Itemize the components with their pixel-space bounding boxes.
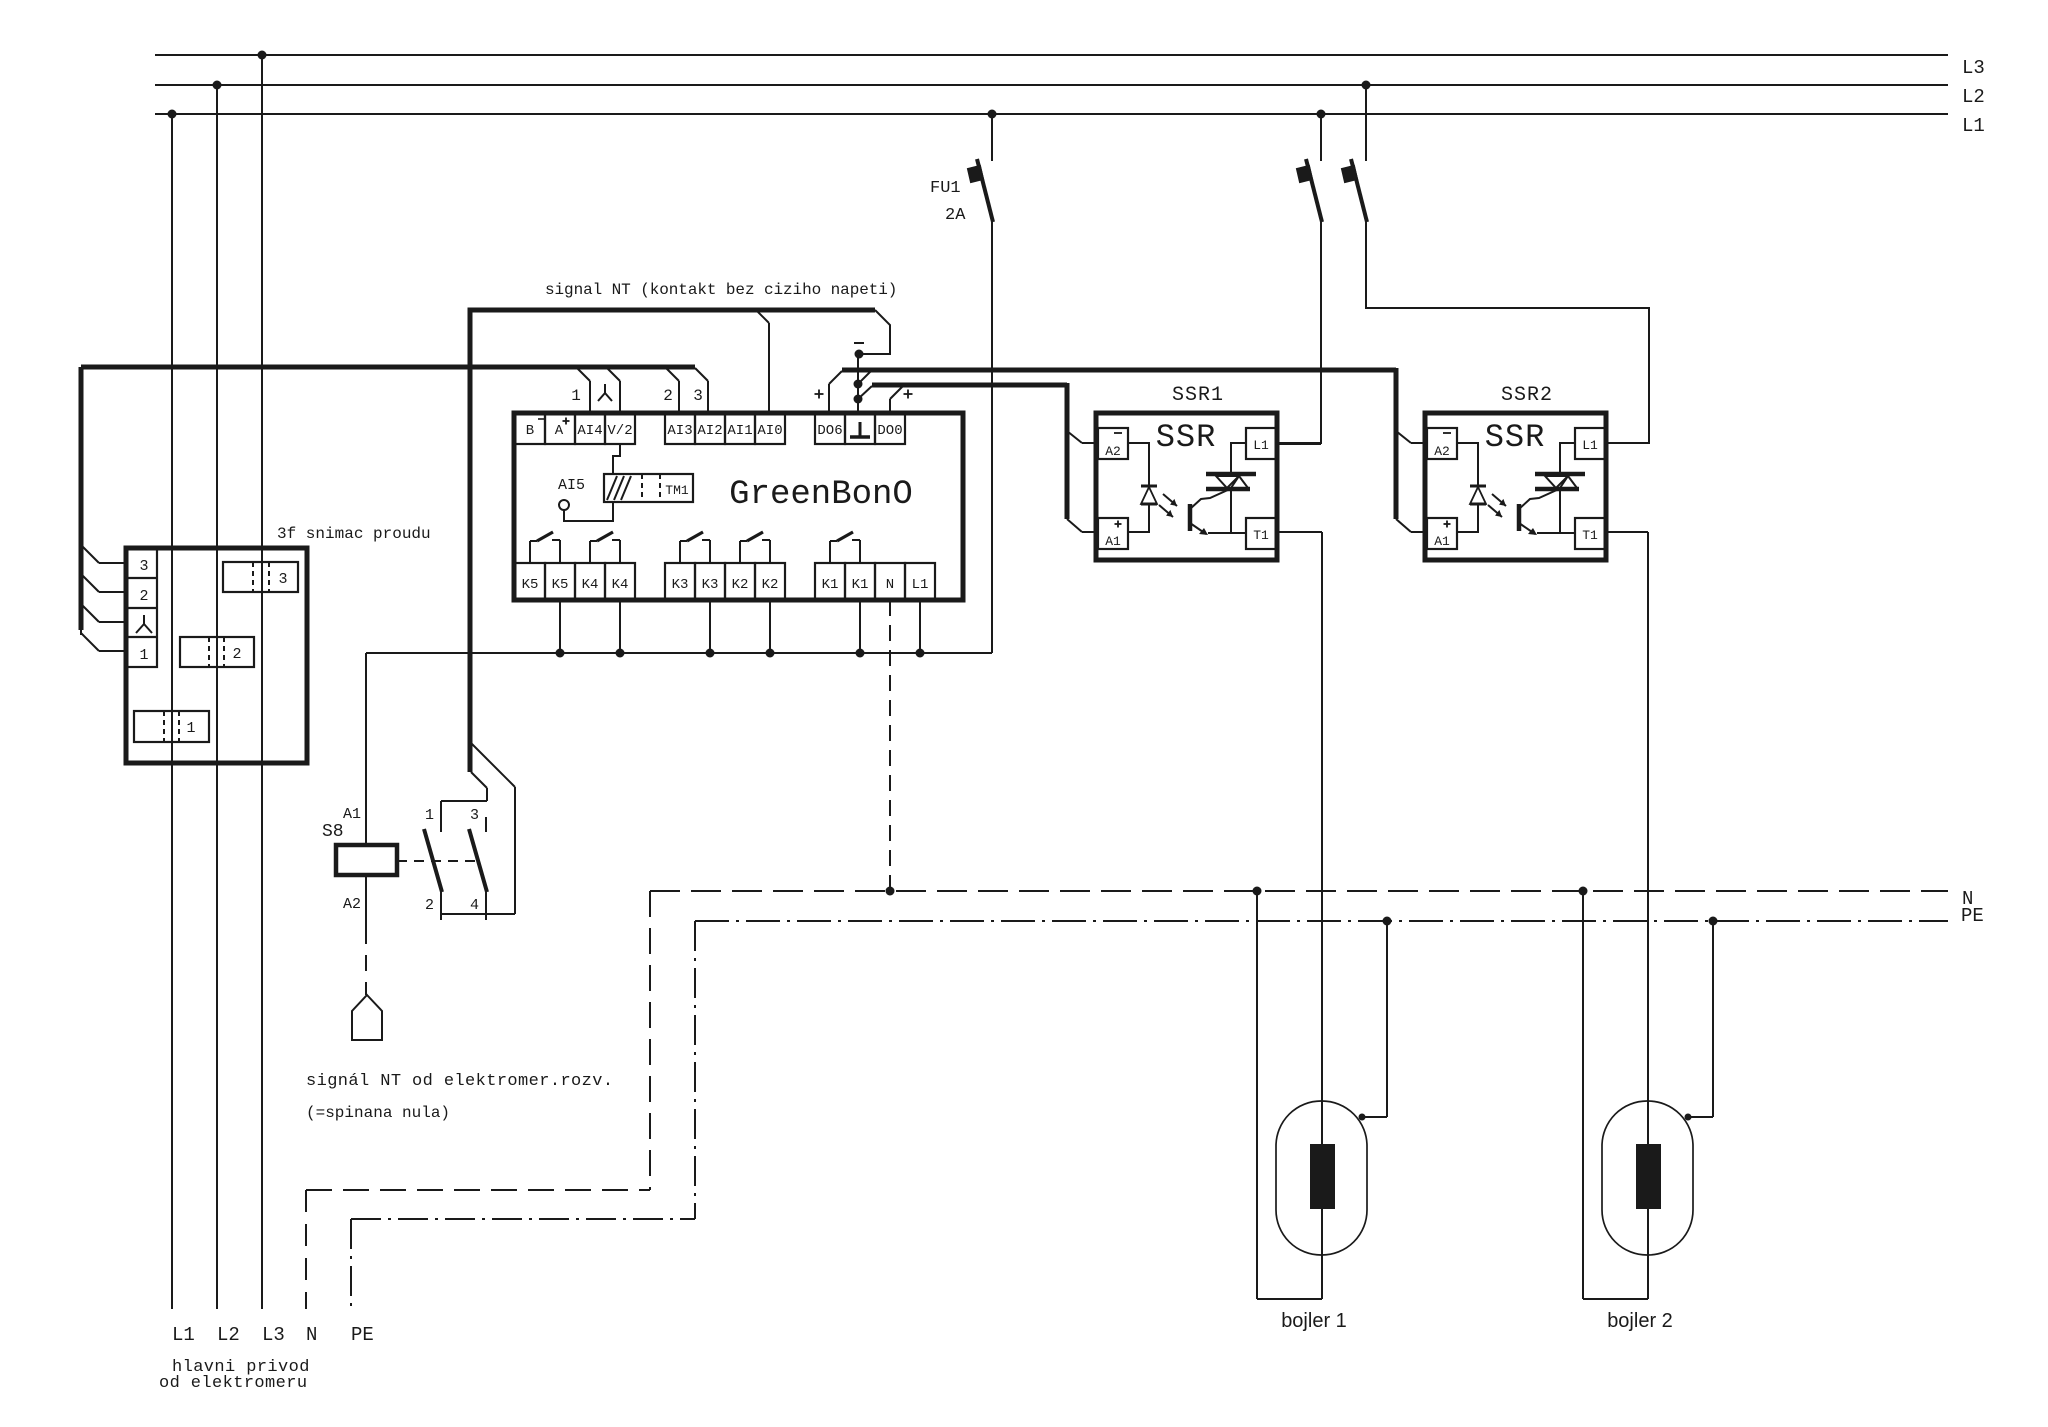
svg-text:S8: S8 <box>322 822 344 842</box>
svg-text:AI4: AI4 <box>577 423 602 439</box>
svg-text:L3: L3 <box>1962 57 1985 79</box>
svg-text:3: 3 <box>470 807 479 824</box>
svg-text:K3: K3 <box>672 577 689 593</box>
svg-text:PE: PE <box>351 1324 374 1346</box>
svg-text:(=spinana nula): (=spinana nula) <box>306 1104 450 1122</box>
svg-text:signál NT od elektromer.rozv.: signál NT od elektromer.rozv. <box>306 1072 613 1091</box>
svg-text:SSR1: SSR1 <box>1172 384 1224 407</box>
svg-text:N: N <box>306 1324 317 1346</box>
svg-text:bojler 1: bojler 1 <box>1281 1310 1347 1332</box>
svg-text:2: 2 <box>139 588 148 605</box>
svg-text:signal NT (kontakt bez ciziho: signal NT (kontakt bez ciziho napeti) <box>545 281 897 299</box>
svg-text:3: 3 <box>278 571 287 588</box>
svg-text:N: N <box>886 577 894 593</box>
svg-text:AI5: AI5 <box>558 477 585 494</box>
svg-text:od elektromeru: od elektromeru <box>159 1374 307 1393</box>
svg-text:TM1: TM1 <box>665 483 689 498</box>
svg-text:PE: PE <box>1961 905 1984 927</box>
svg-text:K2: K2 <box>732 577 749 593</box>
svg-text:2: 2 <box>232 646 241 663</box>
svg-text:3: 3 <box>139 558 148 575</box>
svg-text:1: 1 <box>186 720 195 737</box>
svg-text:AI3: AI3 <box>667 423 692 439</box>
svg-text:SSR2: SSR2 <box>1501 384 1553 407</box>
svg-text:AI1: AI1 <box>727 423 752 439</box>
svg-text:L2: L2 <box>1962 86 1985 108</box>
svg-text:DO0: DO0 <box>877 423 902 439</box>
svg-text:FU1: FU1 <box>930 179 961 198</box>
svg-text:2: 2 <box>663 387 673 405</box>
svg-text:AI2: AI2 <box>697 423 722 439</box>
svg-text:1: 1 <box>571 387 581 405</box>
svg-text:A1: A1 <box>343 806 361 823</box>
svg-text:AI0: AI0 <box>757 423 782 439</box>
svg-text:2A: 2A <box>945 206 966 225</box>
svg-text:GreenBonO: GreenBonO <box>729 476 913 514</box>
svg-text:V/2: V/2 <box>607 423 632 439</box>
svg-text:2: 2 <box>425 897 434 914</box>
svg-text:L2: L2 <box>217 1324 240 1346</box>
svg-text:3f snimac proudu: 3f snimac proudu <box>277 525 431 543</box>
svg-text:L1: L1 <box>172 1324 195 1346</box>
svg-text:K3: K3 <box>702 577 719 593</box>
svg-text:L1: L1 <box>1962 115 1985 137</box>
svg-text:DO6: DO6 <box>817 423 842 439</box>
svg-text:3: 3 <box>693 387 703 405</box>
svg-text:1: 1 <box>139 647 148 664</box>
svg-text:K1: K1 <box>822 577 839 593</box>
svg-text:K4: K4 <box>582 577 599 593</box>
svg-text:L3: L3 <box>262 1324 285 1346</box>
svg-text:K5: K5 <box>552 577 569 593</box>
svg-text:A: A <box>555 423 564 439</box>
svg-text:K4: K4 <box>612 577 629 593</box>
svg-text:K5: K5 <box>522 577 539 593</box>
svg-text:A2: A2 <box>343 896 361 913</box>
svg-text:4: 4 <box>470 897 479 914</box>
svg-text:B: B <box>526 423 534 439</box>
svg-text:L1: L1 <box>912 577 929 593</box>
svg-text:bojler 2: bojler 2 <box>1607 1310 1673 1332</box>
svg-text:K1: K1 <box>852 577 869 593</box>
svg-text:1: 1 <box>425 807 434 824</box>
svg-text:K2: K2 <box>762 577 779 593</box>
